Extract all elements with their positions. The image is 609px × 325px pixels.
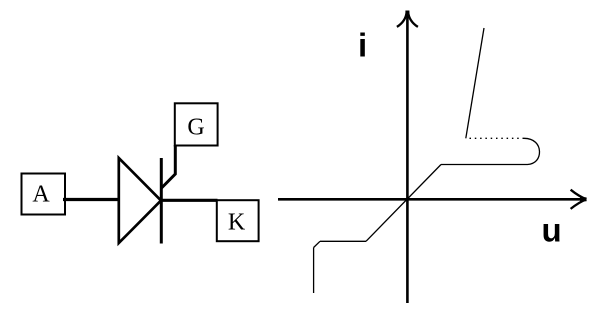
svg-text:G: G [187, 115, 204, 141]
curve Q1 breakover hook [524, 138, 540, 164]
terminal box K [217, 200, 259, 241]
i axis arrowhead [397, 11, 418, 27]
thyristor cathode bar [160, 158, 163, 244]
u axis (horizontal) [278, 198, 584, 201]
wire cathode to K [161, 199, 218, 202]
label u [542, 212, 562, 249]
terminal box A [22, 174, 66, 215]
curve Q1 dotted holding segment [466, 137, 524, 139]
svg-text:A: A [32, 181, 50, 207]
curve Q1 on-state steep line [466, 28, 484, 138]
curve Q1 diagonal through origin [366, 165, 441, 242]
wire anode A to thyristor [63, 198, 120, 201]
gate wire [162, 145, 176, 188]
curve Q3 reverse breakdown vertical [313, 248, 315, 294]
u axis arrowhead [571, 190, 587, 209]
svg-text:u: u [542, 212, 562, 249]
thyristor triangle [119, 158, 161, 243]
curve Q1 flat forward segment [441, 164, 528, 166]
svg-text:i: i [358, 27, 367, 64]
terminal box G [175, 103, 218, 145]
svg-text:K: K [228, 210, 246, 236]
curve Q3 corner [314, 241, 320, 247]
curve Q3 flat reverse segment [320, 240, 366, 242]
label i [358, 27, 367, 64]
i axis (vertical) [406, 13, 409, 303]
